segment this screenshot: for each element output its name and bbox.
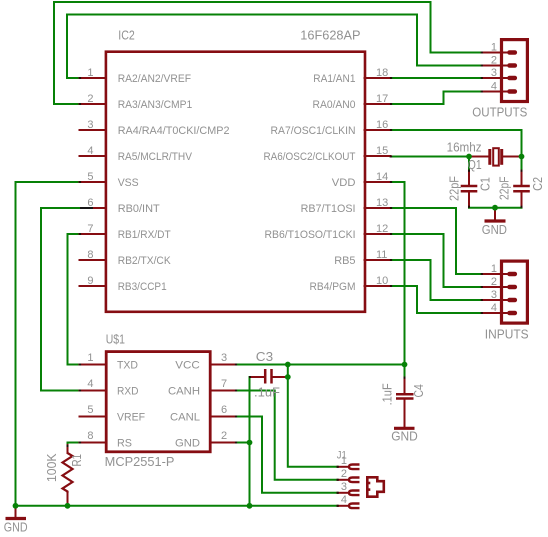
svg-text:7: 7	[221, 378, 227, 390]
svg-text:RB2/TX/CK: RB2/TX/CK	[118, 255, 172, 267]
svg-text:VCC: VCC	[175, 360, 200, 372]
svg-text:22pF: 22pF	[498, 176, 512, 200]
svg-text:11: 11	[376, 249, 387, 261]
svg-text:VDD: VDD	[332, 177, 356, 189]
svg-text:RB7/T1OSI: RB7/T1OSI	[301, 203, 356, 215]
svg-text:RA5/MCLR/THV: RA5/MCLR/THV	[118, 151, 193, 163]
svg-text:16: 16	[376, 119, 388, 131]
svg-text:1: 1	[87, 67, 93, 79]
svg-text:1: 1	[341, 455, 347, 467]
svg-text:6: 6	[87, 197, 93, 209]
svg-text:4: 4	[491, 302, 497, 314]
svg-text:17: 17	[376, 93, 388, 105]
svg-text:GND: GND	[391, 430, 418, 444]
svg-text:GND: GND	[4, 521, 28, 535]
svg-text:RXD: RXD	[117, 386, 139, 398]
svg-text:5: 5	[87, 404, 93, 416]
svg-text:RA3/AN3/CMP1: RA3/AN3/CMP1	[118, 99, 193, 111]
svg-text:OUTPUTS: OUTPUTS	[472, 105, 527, 119]
svg-text:4: 4	[341, 494, 347, 506]
svg-text:15: 15	[376, 145, 388, 157]
svg-text:CANL: CANL	[170, 412, 200, 424]
svg-text:R1: R1	[70, 454, 84, 467]
svg-text:14: 14	[376, 171, 388, 183]
svg-text:1: 1	[491, 263, 497, 275]
svg-text:13: 13	[376, 197, 388, 209]
svg-text:22pF: 22pF	[448, 176, 462, 201]
svg-text:16F628AP: 16F628AP	[300, 29, 360, 43]
svg-text:7: 7	[87, 223, 93, 235]
svg-text:16mhz: 16mhz	[447, 140, 482, 154]
svg-text:RS: RS	[117, 438, 132, 450]
svg-text:4: 4	[87, 145, 93, 157]
svg-text:VREF: VREF	[117, 412, 145, 424]
svg-text:RA4/RA4/T0CKI/CMP2: RA4/RA4/T0CKI/CMP2	[118, 125, 230, 137]
svg-text:3: 3	[491, 67, 497, 79]
svg-text:RB1/RX/DT: RB1/RX/DT	[118, 229, 171, 241]
svg-text:3: 3	[221, 352, 227, 364]
svg-text:1: 1	[491, 41, 497, 53]
svg-text:C1: C1	[478, 177, 492, 191]
svg-text:IC2: IC2	[118, 29, 135, 43]
svg-text:12: 12	[376, 223, 388, 235]
svg-text:3: 3	[491, 289, 497, 301]
svg-text:2: 2	[341, 468, 347, 480]
svg-text:CANH: CANH	[168, 386, 200, 398]
svg-text:8: 8	[87, 430, 93, 442]
svg-text:C3: C3	[256, 350, 273, 364]
svg-text:RB5: RB5	[334, 255, 355, 267]
svg-text:4: 4	[491, 80, 497, 92]
svg-text:RA6/OSC2/CLKOUT: RA6/OSC2/CLKOUT	[264, 151, 356, 163]
svg-text:2: 2	[491, 276, 497, 288]
svg-text:6: 6	[221, 404, 227, 416]
svg-text:RB0/INT: RB0/INT	[118, 203, 160, 215]
svg-text:2: 2	[491, 54, 497, 66]
svg-text:2: 2	[87, 93, 93, 105]
svg-text:Q1: Q1	[468, 158, 482, 172]
svg-text:8: 8	[87, 249, 93, 261]
svg-text:RB4/PGM: RB4/PGM	[310, 281, 356, 293]
svg-text:RA2/AN2/VREF: RA2/AN2/VREF	[118, 73, 192, 85]
svg-text:RA1/AN1: RA1/AN1	[313, 73, 355, 85]
svg-text:INPUTS: INPUTS	[485, 328, 529, 342]
svg-text:3: 3	[341, 481, 347, 493]
svg-text:U$1: U$1	[106, 333, 125, 347]
svg-text:C4: C4	[412, 384, 426, 397]
svg-text:RA7/OSC1/CLKIN: RA7/OSC1/CLKIN	[271, 125, 356, 137]
svg-text:3: 3	[87, 119, 93, 131]
svg-text:VSS: VSS	[118, 177, 139, 189]
svg-text:MCP2551-P: MCP2551-P	[105, 455, 175, 469]
svg-text:.1uF: .1uF	[381, 383, 395, 405]
svg-text:.1uF: .1uF	[254, 386, 280, 400]
svg-text:5: 5	[87, 171, 93, 183]
svg-text:4: 4	[87, 378, 93, 390]
svg-text:RA0/AN0: RA0/AN0	[313, 99, 356, 111]
svg-text:GND: GND	[175, 438, 200, 450]
svg-text:RB6/T1OSO/T1CKI: RB6/T1OSO/T1CKI	[265, 229, 356, 241]
svg-text:9: 9	[87, 275, 93, 287]
svg-text:C2: C2	[531, 177, 545, 191]
svg-text:10: 10	[376, 275, 388, 287]
svg-text:GND: GND	[482, 223, 507, 237]
svg-text:100K: 100K	[45, 453, 59, 482]
svg-text:18: 18	[376, 67, 388, 79]
svg-text:RB3/CCP1: RB3/CCP1	[118, 281, 167, 293]
svg-text:2: 2	[221, 430, 227, 442]
svg-text:1: 1	[87, 352, 93, 364]
svg-text:TXD: TXD	[117, 360, 138, 372]
